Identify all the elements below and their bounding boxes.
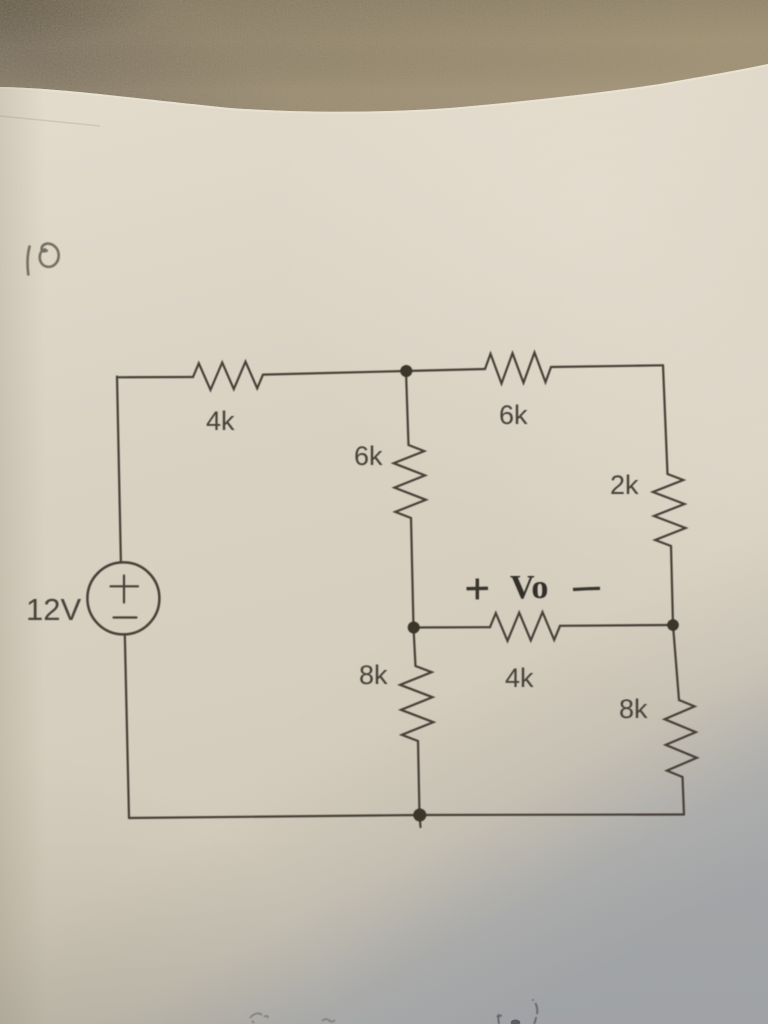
svg-text:8k: 8k	[359, 660, 388, 690]
svg-text:2k: 2k	[610, 470, 639, 500]
svg-text:Vo: Vo	[510, 569, 548, 606]
svg-text:6k: 6k	[354, 441, 383, 471]
svg-text:4k: 4k	[206, 406, 235, 436]
svg-text:8k: 8k	[619, 694, 648, 724]
svg-text:4k: 4k	[505, 663, 534, 693]
svg-text:6k: 6k	[499, 400, 528, 430]
svg-text:12V: 12V	[26, 592, 81, 627]
